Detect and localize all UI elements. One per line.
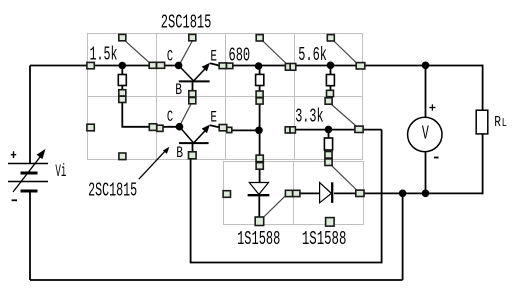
wire output rail riser to RL top (482, 65, 484, 111)
pad R3 top pin (327, 35, 334, 41)
svg-text:C: C (167, 108, 173, 126)
pad unused in D1 box (223, 191, 230, 198)
svg-text:1S1588: 1S1588 (237, 228, 280, 250)
pad node D2 cathode rail (356, 190, 364, 196)
pads D1 anode pin (256, 155, 263, 169)
junction node voltmeter minus (422, 190, 430, 198)
resistor RL body (476, 110, 488, 134)
junction node R4 top (325, 126, 333, 134)
diode D2 1S1588 (285, 182, 483, 203)
svg-text:B: B (176, 144, 183, 162)
resistor R4 3.3k body (324, 133, 332, 150)
wire bottom rail riser to diode-row node (402, 193, 404, 280)
voltmeter plus label (429, 104, 435, 110)
R3 lead diagonal from top pad to rail pad (334, 42, 357, 64)
svg-text:E: E (210, 109, 217, 127)
svg-text:1S1588: 1S1588 (302, 228, 347, 250)
pad R2 top pin (256, 35, 263, 41)
transistor Q1 2SC1815 symbol (179, 63, 210, 91)
Q1 collector lead diagonal to top pad (180, 41, 193, 64)
pads output rail at R3 (285, 64, 295, 71)
D1 lead diagonal from bottom pad to diode-row pads (263, 196, 285, 218)
junction node R2 top on output rail (255, 62, 263, 70)
diode D1 1S1588 (248, 169, 270, 217)
pads node D1 cathode to D2 anode (285, 190, 300, 196)
wire bottom rail (ground) (30, 279, 403, 281)
junction node Q2 collector (176, 123, 184, 131)
wire left vertical from top rail to battery + (29, 66, 31, 164)
pad unused below R1 (119, 153, 126, 160)
battery minus label (12, 199, 17, 201)
transistor Q2 2SC1815 symbol (179, 125, 210, 152)
R2 lead down to diode D1 (259, 104, 261, 155)
svg-text:2SC1815: 2SC1815 (161, 11, 212, 33)
wire mid row 3.3k to loop riser (295, 129, 382, 131)
pads node Q1 emitter wire (219, 63, 233, 69)
R1 lead diagonal to rail pads (125, 41, 150, 63)
svg-text:L: L (502, 116, 507, 130)
voltmeter minus label (434, 157, 439, 159)
svg-text:B: B (175, 81, 182, 99)
Q1 base lead diagonal to Q2 collector (180, 104, 191, 124)
R4 lead diagonal from lower pads to diode-row pad (332, 166, 357, 190)
pads Q1 base pin (189, 91, 196, 104)
junction node voltmeter plus on output rail (422, 62, 430, 70)
junction node R1 top on input rail (119, 62, 127, 70)
pad input rail (87, 62, 94, 68)
resistor R1 1.5k body (118, 68, 126, 90)
pads node Q1 collector wire (149, 62, 164, 68)
R3 lead diagonal from lower pads to mid-row pad (332, 105, 358, 127)
pads R1 bottom pin (119, 90, 126, 103)
junction node Q1 collector (175, 62, 183, 70)
pad Q2 base pin (189, 152, 197, 159)
diode part boxes (224, 162, 364, 225)
pad D2 cathode pin (326, 218, 335, 227)
resistor R3 5.6k body (326, 68, 334, 90)
wire RL bottom to diode-row rail (482, 134, 484, 194)
pad node R3 bottom to R4 (355, 126, 363, 132)
pads node R4 top wire (285, 127, 295, 133)
battery Vi (variable source) (8, 149, 48, 192)
junction node ground riser (399, 190, 407, 198)
battery plus label (11, 151, 16, 158)
pads R4 bottom pin (325, 152, 332, 166)
wire Q2 base down along loop to 3.3k node (191, 130, 382, 263)
svg-text:E: E (210, 47, 217, 65)
pads R2 bottom pin (256, 91, 263, 104)
svg-text:V: V (422, 123, 429, 145)
wire Q1 emitter to output rail (210, 63, 483, 65)
R2 lead diagonal from top pad to rail pads (263, 42, 286, 64)
wire battery - down to bottom rail (29, 193, 31, 281)
resistor R2 680 body (256, 68, 264, 91)
junction node Q2 emitter to R2 bottom (255, 127, 263, 135)
pad D1 cathode pin (255, 217, 264, 226)
junction node R3 top on output rail (327, 62, 335, 70)
grid box column lines (87, 33, 363, 160)
R1 lead from lower pads down and right to Q2 collector (122, 103, 179, 127)
pads R3 bottom pin (325, 90, 333, 104)
svg-text:2SC1815: 2SC1815 (88, 179, 137, 201)
wire top rail left (Vi+ to Q1 collector) (30, 65, 179, 67)
voltmeter V (408, 66, 442, 194)
pads node Q2 emitter wire (219, 125, 232, 133)
pad unused left (87, 124, 94, 131)
annotation arrow to Q2 (139, 147, 170, 179)
pad Q1 collector pin (189, 34, 196, 40)
pad R1 top pin (119, 34, 126, 40)
svg-text:5.6k: 5.6k (298, 44, 327, 66)
svg-text:Vi: Vi (55, 162, 66, 182)
svg-text:3.3k: 3.3k (295, 106, 323, 128)
svg-text:C: C (167, 48, 173, 66)
svg-text:R: R (494, 114, 501, 131)
pad output rail right (356, 63, 365, 69)
wire Q2 emitter to 680/diode junction (210, 125, 259, 130)
pads node Q2 collector wire (149, 124, 163, 132)
